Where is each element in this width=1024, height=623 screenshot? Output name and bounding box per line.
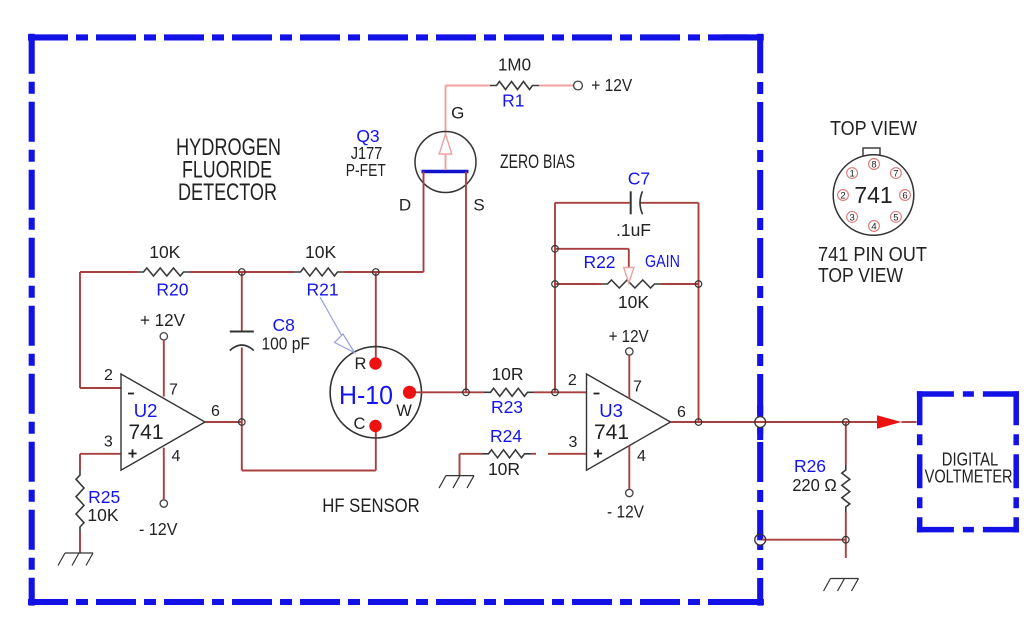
svg-text:220 Ω: 220 Ω — [792, 475, 837, 495]
svg-text:10K: 10K — [305, 242, 336, 262]
svg-text:C7: C7 — [628, 168, 650, 188]
svg-text:6: 6 — [211, 403, 220, 420]
svg-text:C8: C8 — [273, 315, 295, 335]
svg-text:GAIN: GAIN — [645, 251, 680, 271]
svg-text:10K: 10K — [149, 242, 180, 262]
svg-text:- 12V: - 12V — [607, 502, 644, 522]
svg-text:4: 4 — [172, 448, 181, 465]
svg-text:2: 2 — [104, 367, 113, 384]
svg-text:R26: R26 — [794, 456, 826, 476]
svg-text:C: C — [354, 415, 366, 433]
svg-text:5: 5 — [893, 212, 898, 223]
svg-text:6: 6 — [677, 404, 686, 421]
svg-text:R24: R24 — [490, 426, 522, 446]
svg-text:4: 4 — [871, 221, 876, 232]
svg-text:2: 2 — [840, 190, 845, 201]
svg-text:3: 3 — [569, 434, 578, 451]
svg-text:R22: R22 — [583, 252, 615, 272]
svg-text:3: 3 — [849, 212, 854, 223]
svg-text:R25: R25 — [88, 487, 120, 507]
svg-text:10R: 10R — [491, 364, 523, 384]
svg-text:U3: U3 — [599, 400, 623, 421]
svg-text:741 PIN OUT: 741 PIN OUT — [818, 244, 927, 266]
svg-text:8: 8 — [871, 159, 876, 170]
svg-text:6: 6 — [902, 190, 907, 201]
svg-text:+ 12V: + 12V — [609, 326, 649, 346]
svg-text:+ 12V: + 12V — [591, 75, 632, 95]
svg-text:VOLTMETER: VOLTMETER — [925, 467, 1013, 487]
svg-text:R23: R23 — [491, 397, 523, 417]
svg-text:2: 2 — [568, 372, 577, 389]
svg-text:4: 4 — [637, 448, 646, 465]
svg-text:741: 741 — [128, 421, 163, 444]
svg-text:7: 7 — [169, 382, 178, 399]
svg-text:HF SENSOR: HF SENSOR — [322, 496, 420, 517]
svg-text:7: 7 — [633, 379, 642, 396]
svg-text:10K: 10K — [87, 505, 118, 525]
svg-text:DETECTOR: DETECTOR — [178, 179, 277, 206]
svg-text:741: 741 — [854, 182, 892, 208]
svg-text:R21: R21 — [307, 279, 339, 299]
svg-text:741: 741 — [594, 421, 629, 444]
svg-text:100 pF: 100 pF — [261, 334, 310, 354]
svg-text:P-FET: P-FET — [346, 160, 386, 180]
svg-text:- 12V: - 12V — [139, 519, 178, 539]
svg-text:1M0: 1M0 — [498, 54, 531, 74]
svg-text:ZERO BIAS: ZERO BIAS — [500, 152, 575, 173]
svg-text:3: 3 — [104, 434, 113, 451]
svg-text:10R: 10R — [488, 459, 520, 479]
svg-text:S: S — [473, 195, 484, 214]
svg-text:D: D — [399, 195, 411, 214]
svg-text:G: G — [451, 104, 464, 123]
svg-text:R1: R1 — [502, 90, 524, 110]
svg-text:7: 7 — [893, 169, 898, 180]
svg-text:1: 1 — [849, 169, 854, 180]
svg-text:TOP VIEW: TOP VIEW — [830, 118, 917, 140]
svg-text:W: W — [396, 402, 412, 420]
svg-text:R: R — [355, 355, 367, 373]
svg-text:10K: 10K — [618, 292, 649, 312]
svg-text:U2: U2 — [134, 400, 158, 421]
svg-text:H-10: H-10 — [339, 380, 393, 410]
svg-text:R20: R20 — [156, 279, 188, 299]
svg-text:.1uF: .1uF — [616, 220, 651, 240]
svg-text:TOP VIEW: TOP VIEW — [818, 265, 903, 287]
svg-text:+ 12V: + 12V — [140, 310, 185, 330]
